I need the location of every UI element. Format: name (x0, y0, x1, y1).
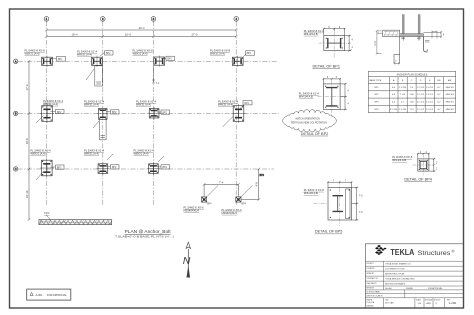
svg-text:4'X4': 4'X4' (44, 212, 50, 215)
svg-text:19-9-02A: 19-9-02A (366, 301, 375, 304)
svg-text:1'-0 1/2: 1'-0 1/2 (426, 87, 434, 89)
title block frame (365, 244, 463, 308)
left channel member (383, 30, 400, 36)
svg-text:DETAIL OF BP5: DETAIL OF BP5 (315, 230, 342, 234)
footing strip (hatched) (39, 212, 112, 225)
svg-text:BP1: BP1 (58, 59, 63, 61)
grid bubble A (14, 59, 18, 63)
svg-text:BP4: BP4 (207, 204, 212, 206)
plan title (115, 229, 174, 239)
grid line 2 (102, 21, 104, 205)
svg-text:7'-4: 7'-4 (219, 180, 224, 184)
svg-text:®: ® (452, 249, 455, 254)
svg-text:HB4 3/4: HB4 3/4 (446, 109, 455, 111)
column 1/C (31, 148, 65, 180)
svg-text:ANCHOR PLAN SCHEDULE: ANCHOR PLAN SCHEDULE (397, 74, 428, 77)
svg-text:2'-1 1/2: 2'-1 1/2 (417, 102, 425, 104)
svg-text:HB4 3/4: HB4 3/4 (446, 102, 455, 104)
grid line C (18, 168, 274, 170)
column 3/C (134, 148, 170, 175)
svg-text:W/4-3/4 A.B.: W/4-3/4 A.B. (392, 158, 407, 162)
column 2/C (84, 148, 119, 175)
svg-text:W/6-3/4 A.B.: W/6-3/4 A.B. (304, 191, 319, 195)
svg-text:FOR APPROVAL: FOR APPROVAL (47, 293, 67, 297)
svg-text:DETAIL OF BP1: DETAIL OF BP1 (313, 64, 340, 68)
grid line 4 (235, 21, 237, 205)
grid bubble 4 (234, 17, 239, 22)
svg-text:DETAIL OF BP2: DETAIL OF BP2 (301, 132, 328, 136)
bay dimension line 19'-4 / 16'-6 / 27'-0 (45, 32, 237, 37)
grid line B (18, 113, 279, 115)
revision cloud note (283, 110, 337, 132)
grid line 1 (vertical, dashed) (18, 21, 279, 205)
column 3/A (133, 49, 175, 86)
svg-text:Rev A 0: Rev A 0 (385, 287, 392, 290)
column 4/A (210, 49, 255, 67)
svg-text:BP2: BP2 (112, 112, 117, 114)
svg-text:16'-6: 16'-6 (125, 32, 131, 36)
sub-plan vertical dimension 4'-8 (241, 168, 265, 201)
svg-text:W8X31 (A-4): W8X31 (A-4) (84, 102, 99, 106)
svg-text:BP2: BP2 (106, 53, 111, 55)
svg-text:T.SLAB=0'-0 B.BASE PL.NTS (+: T.SLAB=0'-0 B.BASE PL.NTS (+/-..) (115, 235, 174, 239)
svg-text:C: C (15, 168, 17, 171)
svg-text:2'-1 1/2: 2'-1 1/2 (417, 94, 425, 96)
svg-text:REVISION: REVISION (366, 288, 374, 290)
left dimension line 17'-4 / 18'-6 / 16'-10 (25, 60, 30, 221)
svg-text:W8X31 (A-4): W8X31 (A-4) (31, 151, 46, 155)
svg-text:ANCHOR BOLT PLAN: ANCHOR BOLT PLAN (385, 273, 405, 276)
svg-text:40'-4: 40'-4 (139, 26, 145, 30)
detail BP5 drawing (304, 180, 363, 226)
grid line A (horizontal) (18, 60, 277, 62)
svg-text:W8X31 (A-4): W8X31 (A-4) (77, 53, 92, 57)
svg-text:ISSUED: ISSUED (406, 288, 414, 290)
svg-text:1-200: 1-200 (449, 301, 457, 305)
anchor bolt section detail (top right) (374, 15, 445, 65)
svg-text:2'-0 1/2: 2'-0 1/2 (426, 94, 434, 96)
sub-plan column BP4 left (184, 186, 219, 213)
svg-text:TEKLA MODEL SHARING CO.: TEKLA MODEL SHARING CO. (385, 263, 412, 266)
title block row texts (366, 263, 456, 308)
svg-text:2'-0: 2'-0 (374, 41, 377, 46)
svg-text:PROJECT: PROJECT (366, 263, 373, 265)
svg-text:W8X31 (A-4): W8X31 (A-4) (218, 102, 233, 106)
pier below column 2/B (99, 119, 106, 140)
svg-text:A/B: A/B (448, 79, 452, 82)
north arrow (183, 242, 191, 277)
svg-text:BP2: BP2 (163, 167, 168, 169)
column 3/B (136, 99, 170, 119)
svg-text:DETAIL OF BP4: DETAIL OF BP4 (404, 178, 431, 182)
right concrete edge and hook bolt (423, 32, 441, 36)
svg-text:16'-10: 16'-10 (25, 190, 29, 198)
svg-text:W8X31 (A-4): W8X31 (A-4) (210, 52, 225, 56)
sub-plan column BP4 right (222, 186, 253, 215)
svg-text:A-001: A-001 (36, 293, 43, 297)
grid bubble B (14, 111, 18, 115)
overall top dimension line 40'-4 (45, 26, 237, 31)
svg-text:18'-6: 18'-6 (25, 138, 29, 144)
anchor plan schedule table (368, 71, 455, 112)
svg-text:1ST TEMPLE TX 5078: 1ST TEMPLE TX 5078 (385, 269, 404, 271)
grid bubble 3 (151, 17, 156, 22)
svg-text:BP1: BP1 (247, 53, 252, 55)
svg-text:TEKLA: TEKLA (390, 247, 414, 257)
grid bubble C (14, 167, 18, 171)
svg-text:W8X31 (A-4): W8X31 (A-4) (25, 52, 40, 56)
svg-text:PER PLAN VIEW COL ROTATION: PER PLAN VIEW COL ROTATION (291, 121, 327, 124)
schedule table text (370, 74, 455, 111)
detail BP2 drawing (299, 77, 350, 117)
svg-text:HB4 3/4: HB4 3/4 (446, 87, 455, 89)
svg-text:HSS4X4X1/4: HSS4X4X1/4 (222, 211, 238, 215)
svg-text:CHECKED: CHECKED (366, 305, 374, 307)
svg-text:MATCH ORIENTATION: MATCH ORIENTATION (296, 118, 321, 121)
svg-text:W/4-3/4 A.B.: W/4-3/4 A.B. (299, 95, 314, 99)
svg-text:W8X31 (A-4): W8X31 (A-4) (133, 52, 148, 56)
grid bubble 1 (44, 17, 49, 22)
column 2/A (77, 50, 113, 87)
svg-text:W8X31 (A-4): W8X31 (A-4) (136, 102, 151, 106)
svg-text:1'-0 1/2: 1'-0 1/2 (426, 109, 434, 111)
anchor rod 2 (418, 15, 420, 37)
svg-text:1'-0 1/2: 1'-0 1/2 (426, 102, 434, 104)
svg-text:BP2: BP2 (163, 112, 168, 114)
svg-text:17'-4: 17'-4 (25, 84, 29, 90)
svg-text:1'-06: 1'-06 (400, 94, 406, 96)
svg-text:W/4-3/4 A.B.: W/4-3/4 A.B. (304, 32, 319, 36)
svg-text:N: N (183, 255, 191, 267)
left dimension (376, 30, 382, 55)
svg-text:27'-0: 27'-0 (192, 32, 198, 36)
svg-text:PLAN @ Anchor_Bolt: PLAN @ Anchor_Bolt (125, 229, 172, 235)
svg-text:DWG SIZE: DWG SIZE (425, 300, 432, 302)
sub-plan horizontal dimension 7'-4 (203, 180, 240, 196)
svg-text:BP2: BP2 (112, 167, 117, 169)
svg-text:4'-1 3/4: 4'-1 3/4 (390, 109, 398, 111)
svg-text:W8X31 (A-4): W8X31 (A-4) (84, 151, 99, 155)
svg-text:BASE TYPE: BASE TYPE (370, 79, 382, 82)
svg-text:FOR APPROVAL: FOR APPROVAL (428, 287, 442, 290)
detail BP1 drawing (304, 27, 354, 59)
pier below column 2/A (95, 66, 103, 86)
base plate section (400, 34, 424, 37)
anchor rod 1 (402, 15, 404, 37)
svg-text:BP2: BP2 (245, 103, 250, 105)
grid bubble 2 (101, 17, 106, 22)
column 1/B (36, 99, 64, 123)
svg-text:1'-0 3/4: 1'-0 3/4 (399, 87, 407, 89)
pier outline below plate (394, 37, 400, 64)
svg-text:BP4: BP4 (242, 204, 247, 206)
svg-text:4'-8: 4'-8 (255, 182, 259, 187)
approval stamp box (27, 289, 71, 300)
svg-text:CHECKED BY: CHECKED BY (366, 283, 377, 285)
svg-text:BP4: BP4 (260, 175, 265, 177)
svg-text:DWG NO: DWG NO (434, 300, 441, 302)
detail BP4 drawing (392, 152, 438, 176)
svg-text:1'-0 3/4: 1'-0 3/4 (399, 109, 407, 111)
svg-text:BO PLAN: BO PLAN (385, 302, 394, 305)
Tekla logo mark (375, 245, 387, 255)
svg-text:BP2: BP2 (57, 167, 62, 169)
column 2/B (84, 99, 119, 140)
svg-text:ANSI: ANSI (427, 302, 432, 305)
svg-text:19'-4: 19'-4 (72, 32, 78, 36)
svg-text:W8X31 (A-4): W8X31 (A-4) (43, 102, 58, 106)
svg-text:BP1: BP1 (168, 59, 173, 61)
svg-text:ANTONIO ESTEBAN B.: ANTONIO ESTEBAN B. (385, 283, 406, 286)
svg-text:TEKLA SERVICE CONTRACTING: TEKLA SERVICE CONTRACTING (385, 278, 415, 281)
svg-text:2'-1 1/2: 2'-1 1/2 (417, 87, 425, 89)
svg-text:2'-1 1/2: 2'-1 1/2 (417, 109, 425, 111)
column 1/A (25, 49, 66, 67)
svg-text:HSS4X4X1/4: HSS4X4X1/4 (184, 208, 200, 212)
bolt nuts under plate (401, 37, 421, 39)
column 4/B (218, 99, 252, 127)
grid line 3 (153, 21, 155, 205)
svg-text:1:96: 1:96 (418, 303, 422, 305)
svg-text:BP2: BP2 (57, 112, 62, 114)
svg-text:Structures: Structures (418, 250, 451, 257)
svg-text:W8X31 (A-4): W8X31 (A-4) (134, 151, 149, 155)
svg-text:HB4 3/4: HB4 3/4 (446, 94, 455, 96)
